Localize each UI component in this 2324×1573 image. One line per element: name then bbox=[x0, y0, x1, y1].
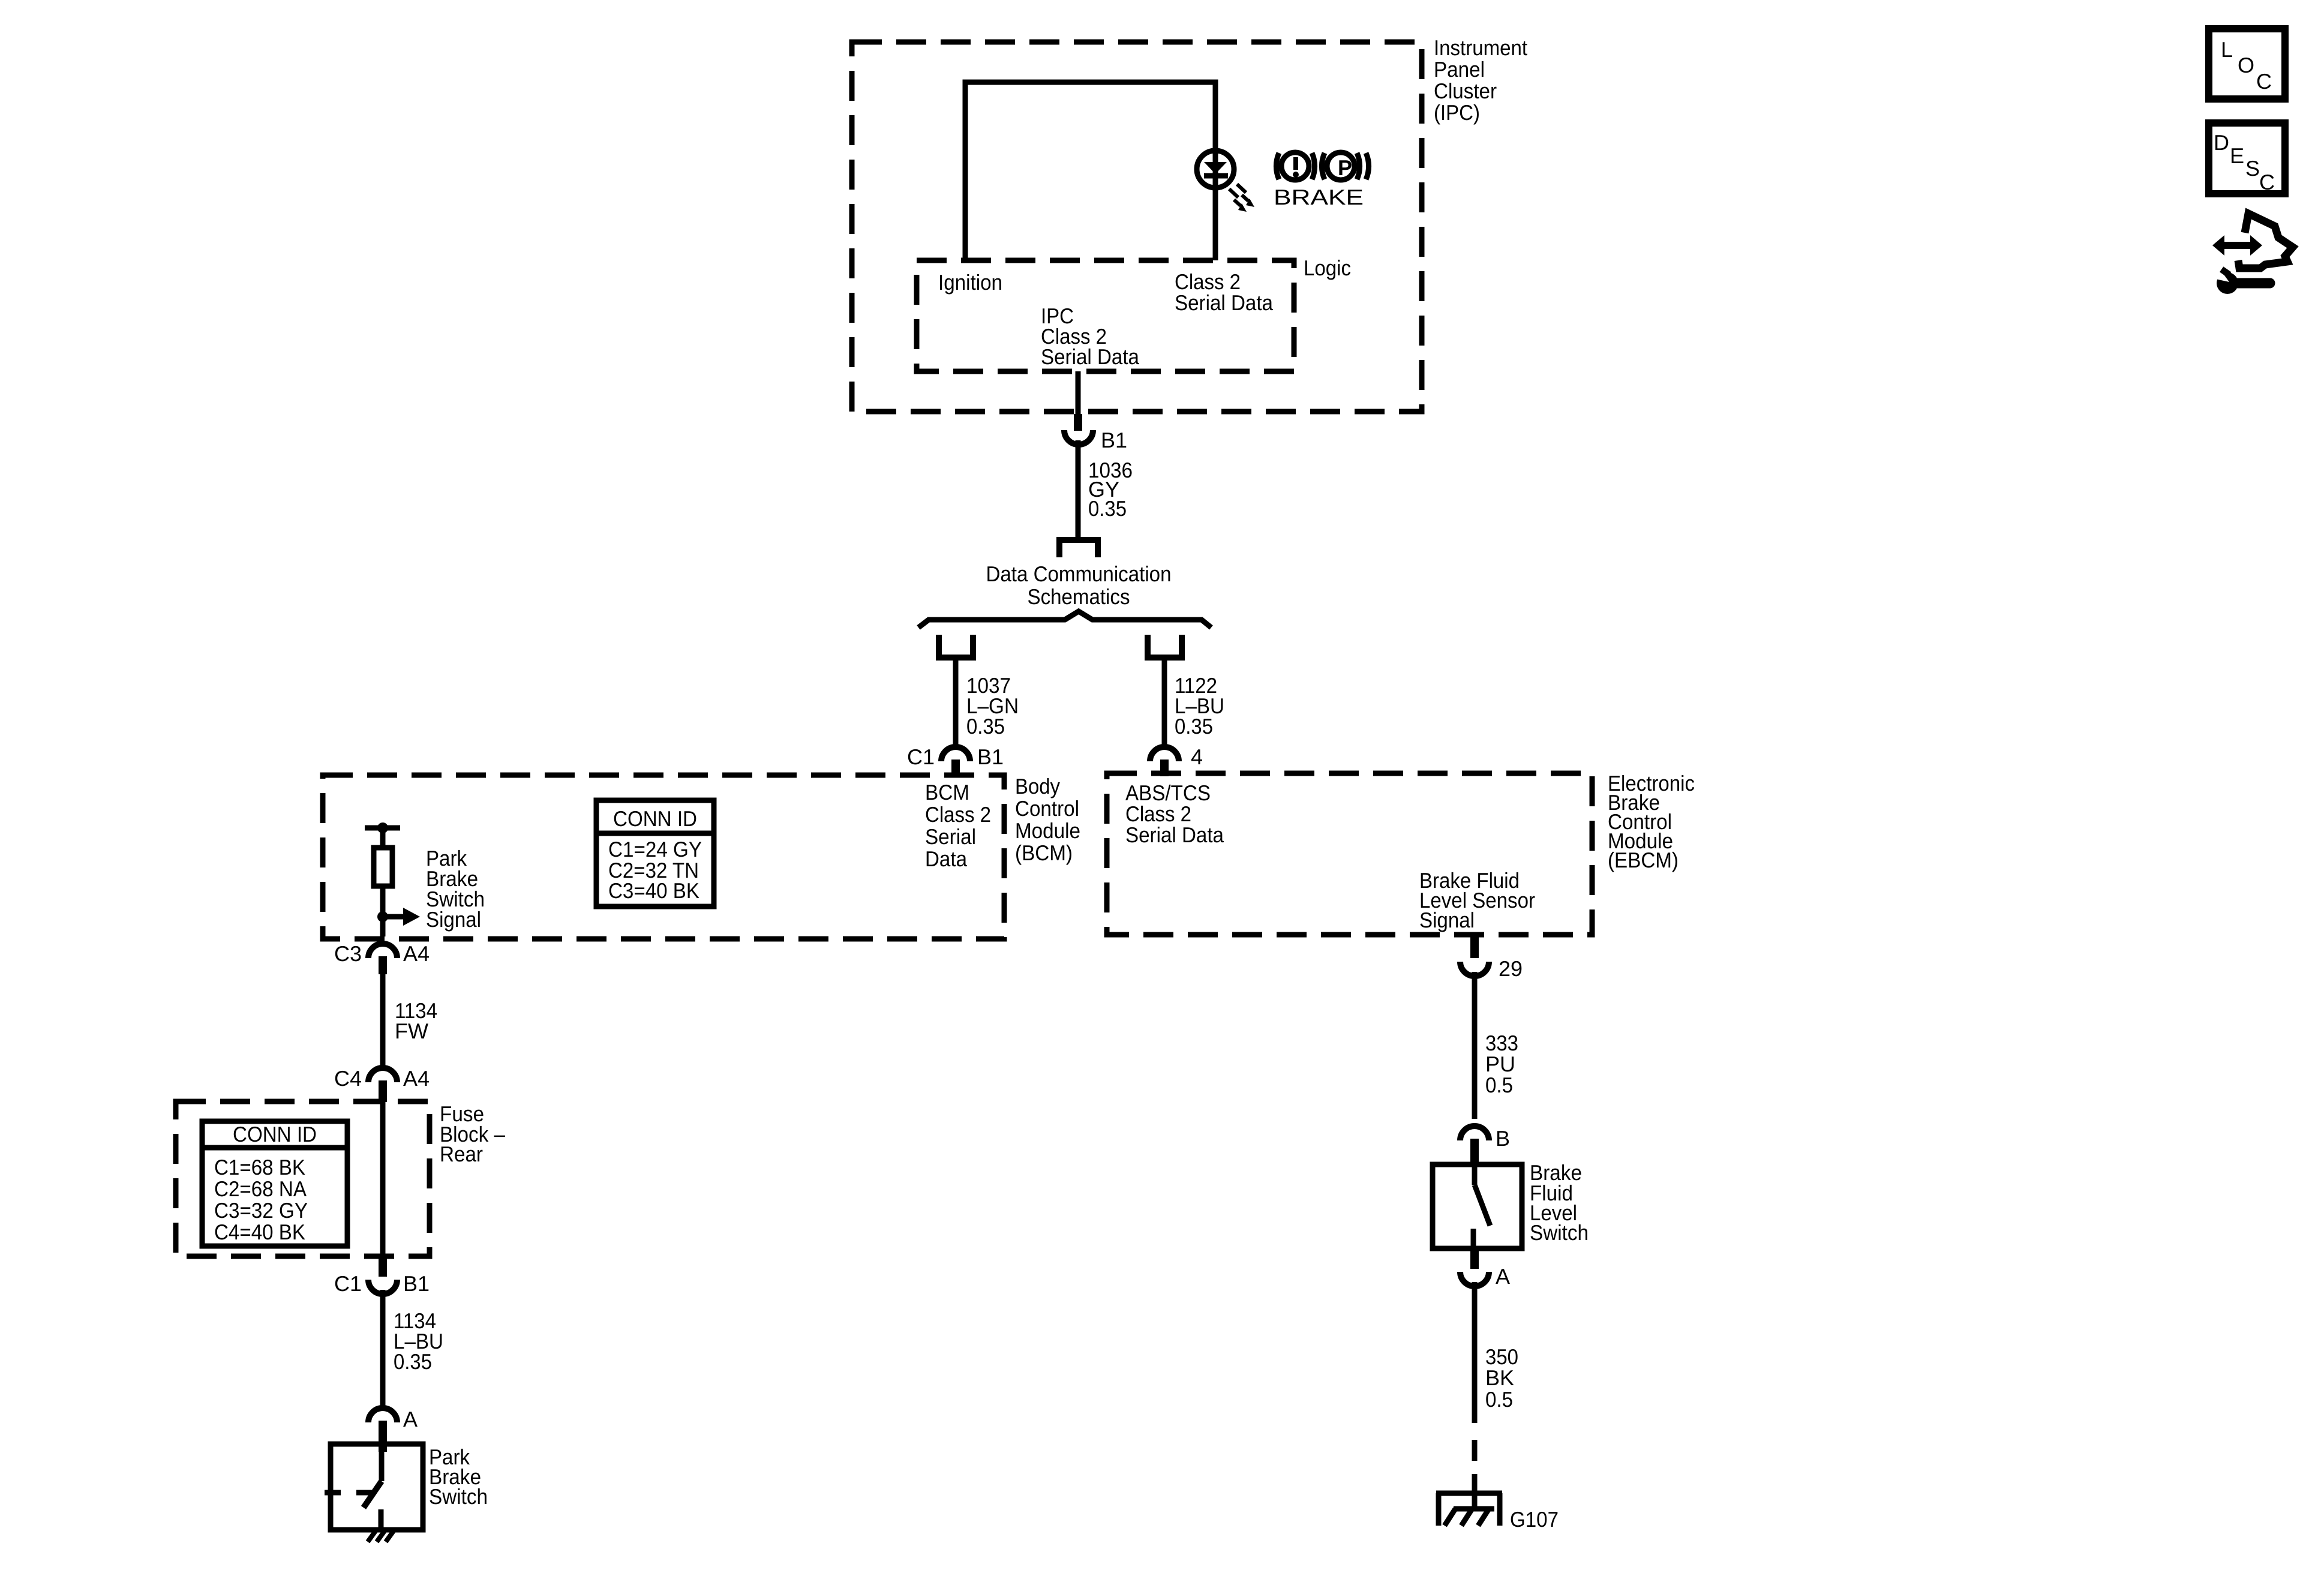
svg-text:Rear: Rear bbox=[440, 1142, 483, 1166]
svg-text:Schematics: Schematics bbox=[1028, 584, 1130, 609]
svg-text:Signal: Signal bbox=[426, 907, 481, 932]
svg-text:BCM: BCM bbox=[925, 780, 969, 804]
svg-text:C: C bbox=[2259, 170, 2275, 194]
svg-text:CONN ID: CONN ID bbox=[613, 806, 697, 831]
svg-text:CONN ID: CONN ID bbox=[233, 1122, 317, 1146]
svg-text:0.5: 0.5 bbox=[1485, 1387, 1513, 1412]
svg-text:Panel: Panel bbox=[1434, 57, 1485, 82]
svg-text:Serial Data: Serial Data bbox=[1175, 290, 1274, 315]
svg-text:4: 4 bbox=[1191, 745, 1203, 769]
svg-text:E: E bbox=[2230, 143, 2244, 168]
svg-text:C2=68 NA: C2=68 NA bbox=[214, 1176, 307, 1201]
svg-text:S: S bbox=[2245, 156, 2260, 181]
svg-text:C3=32 GY: C3=32 GY bbox=[214, 1198, 308, 1223]
svg-text:A: A bbox=[403, 1407, 418, 1431]
svg-text:Instrument: Instrument bbox=[1434, 35, 1527, 60]
svg-text:Serial: Serial bbox=[925, 824, 976, 849]
svg-text:C1=68 BK: C1=68 BK bbox=[214, 1155, 305, 1179]
svg-text:B1: B1 bbox=[977, 745, 1004, 769]
svg-text:A4: A4 bbox=[403, 941, 430, 966]
svg-text:29: 29 bbox=[1499, 956, 1523, 981]
svg-text:Class 2: Class 2 bbox=[925, 802, 991, 827]
svg-text:Control: Control bbox=[1015, 796, 1079, 821]
svg-text:FW: FW bbox=[395, 1019, 428, 1043]
svg-text:A4: A4 bbox=[403, 1066, 430, 1091]
svg-text:Module: Module bbox=[1015, 818, 1080, 843]
svg-text:BRAKE: BRAKE bbox=[1274, 185, 1364, 209]
svg-text:Serial Data: Serial Data bbox=[1125, 822, 1224, 847]
svg-text:P: P bbox=[1338, 155, 1352, 180]
svg-text:C4: C4 bbox=[334, 1066, 362, 1091]
svg-text:(EBCM): (EBCM) bbox=[1608, 848, 1679, 872]
svg-text:BK: BK bbox=[1485, 1365, 1514, 1390]
svg-text:B1: B1 bbox=[403, 1271, 430, 1296]
svg-text:0.35: 0.35 bbox=[1175, 714, 1213, 739]
svg-text:D: D bbox=[2214, 130, 2229, 155]
svg-text:A: A bbox=[1496, 1264, 1510, 1289]
svg-text:C: C bbox=[2256, 69, 2272, 94]
svg-text:B1: B1 bbox=[1101, 428, 1127, 452]
svg-text:0.35: 0.35 bbox=[394, 1349, 432, 1374]
svg-text:(IPC): (IPC) bbox=[1434, 100, 1480, 125]
svg-text:Switch: Switch bbox=[1530, 1220, 1589, 1245]
svg-text:Body: Body bbox=[1015, 774, 1060, 798]
svg-text:C4=40 BK: C4=40 BK bbox=[214, 1220, 305, 1244]
svg-text:Data: Data bbox=[925, 846, 968, 871]
svg-text:Ignition: Ignition bbox=[938, 270, 1002, 295]
svg-text:B: B bbox=[1496, 1126, 1510, 1151]
svg-text:Cluster: Cluster bbox=[1434, 79, 1497, 103]
svg-text:0.5: 0.5 bbox=[1485, 1073, 1513, 1097]
svg-text:0.35: 0.35 bbox=[1088, 496, 1127, 521]
svg-text:C3=40 BK: C3=40 BK bbox=[608, 878, 699, 903]
svg-text:G107: G107 bbox=[1510, 1507, 1559, 1532]
svg-text:Switch: Switch bbox=[429, 1484, 488, 1509]
svg-text:O: O bbox=[2238, 53, 2254, 77]
svg-text:Data Communication: Data Communication bbox=[986, 562, 1172, 586]
svg-text:L: L bbox=[2221, 37, 2233, 62]
svg-text:C3: C3 bbox=[334, 941, 362, 966]
svg-text:C1: C1 bbox=[334, 1271, 362, 1296]
svg-text:0.35: 0.35 bbox=[966, 714, 1005, 739]
svg-text:C1: C1 bbox=[907, 745, 935, 769]
svg-text:Signal: Signal bbox=[1419, 908, 1475, 932]
svg-text:Serial Data: Serial Data bbox=[1041, 344, 1140, 369]
svg-text:(BCM): (BCM) bbox=[1015, 840, 1073, 865]
svg-text:Logic: Logic bbox=[1304, 256, 1351, 280]
